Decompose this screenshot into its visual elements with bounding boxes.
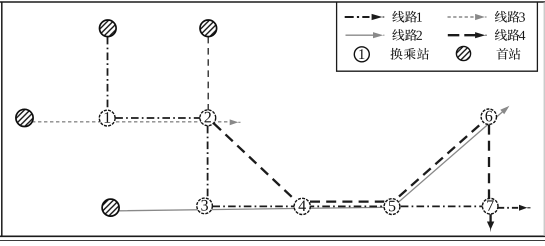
line4 thick dashed diagonal: node 5 to node 6 [399, 121, 485, 197]
line4 stub below node 7 [489, 214, 491, 221]
start station (hatched) bottom-left [102, 199, 119, 216]
transfer station node 6 [481, 109, 496, 124]
line1 dash-dot: node 1 to node 2 [115, 117, 200, 119]
outer frame bottom edge [0, 235, 545, 237]
line3 gray dashed horizontal through nodes 1,2 [32, 121, 230, 123]
legend label line-1 [392, 11, 404, 23]
legend line2 sample (gray solid) [346, 34, 375, 36]
legend transfer-station symbol (circled 1) [354, 47, 369, 62]
transfer station node 4 [294, 198, 310, 214]
line4 thick dashed: node 4 to node 5 [310, 200, 384, 202]
outer frame right edge (faint) [543, 2, 545, 236]
line2 gray solid polyline: start station through nodes 3,4,5 then diagonal via node 6 [119, 109, 506, 211]
outer frame top edge [0, 1, 545, 3]
line1 dash-dot: top start station down to node 1 [107, 37, 109, 110]
transfer station node 7 [482, 198, 498, 214]
legend start-station symbol (hatched circle) [456, 46, 470, 60]
transfer station node 2 [200, 110, 216, 126]
outer frame left edge [1, 2, 3, 237]
legend line3 sample (gray dashed) [448, 16, 475, 18]
line1 dash-dot: node 2 down to node 3 [207, 126, 209, 199]
transfer station node 1 [99, 110, 115, 126]
transfer station node 5 [384, 199, 400, 215]
legend line4 sample (black thick dashed) [448, 34, 476, 36]
legend line1 sample (dash-dot black) [345, 16, 370, 18]
transfer station node 3 [197, 198, 213, 214]
legend box border [337, 2, 538, 71]
line1 dash-dot: node 3 through nodes 4,5 to node 7 [212, 205, 482, 207]
line1 arrowhead right of node 7 [519, 205, 527, 211]
legend label transfer-station [390, 48, 402, 60]
line4 thin dashed: top start station down to node 2 [207, 37, 209, 110]
start station (hatched) left [16, 109, 33, 126]
line3 arrowhead right of node 2 [230, 119, 239, 125]
line2 arrowhead beyond node 6 [500, 106, 509, 115]
legend label line-4 [495, 29, 507, 41]
page bottom edge line [0, 240, 545, 242]
legend label line-2 [392, 29, 404, 41]
legend label start-station [496, 48, 508, 60]
line4 thick dashed vertical: node 6 down to node 7 [488, 125, 490, 199]
start station (hatched) top-left [100, 20, 117, 37]
legend label line-3 [495, 11, 507, 23]
line1 dash-dot: node 7 exit right [498, 207, 520, 209]
line4 down arrowhead below node 7 [487, 222, 494, 233]
start station (hatched) top-mid [200, 20, 217, 37]
line4 thick dashed diagonal: node 2 to node 4 [214, 123, 296, 201]
